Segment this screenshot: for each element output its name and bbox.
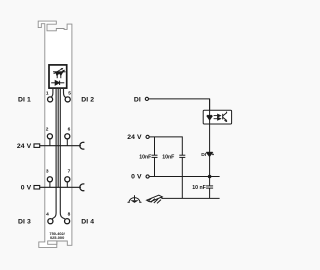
svg-text:DI 3: DI 3 — [18, 218, 31, 225]
svg-text:DI 2: DI 2 — [81, 96, 94, 103]
stub terminal 7 to 0V wire — [66, 182, 68, 188]
terminal 4 — [48, 219, 53, 224]
wire C1 branch upper — [154, 137, 156, 155]
node DI input terminal — [145, 97, 148, 100]
wire junction to C3 — [209, 177, 211, 186]
wire from U1 to terminal 8 — [60, 88, 65, 219]
wire DI horizontal with corner — [149, 99, 210, 110]
terminal 8 — [65, 219, 70, 224]
wire 24V rail with corner — [149, 137, 182, 155]
terminal 5 — [65, 97, 70, 102]
module 750-402 housing outline — [38, 21, 72, 247]
svg-text:0 V: 0 V — [131, 174, 142, 181]
wire C3 to ground rail — [209, 188, 211, 198]
svg-text:10nF: 10nF — [139, 154, 151, 160]
svg-text:10nF: 10nF — [162, 154, 174, 160]
node 24V terminal — [146, 135, 149, 138]
svg-text:DI 1: DI 1 — [18, 96, 31, 103]
svg-text:0 V: 0 V — [21, 185, 32, 192]
0V supply plug — [34, 186, 40, 190]
svg-text:3: 3 — [46, 168, 49, 174]
optocoupler U2 box — [203, 110, 231, 124]
svg-text:2: 2 — [46, 127, 49, 133]
wire through U2 — [209, 110, 211, 124]
functional earth symbol — [128, 195, 142, 203]
wire from U1 to terminal 4 — [52, 88, 56, 219]
diode D2 in LED box — [51, 81, 64, 85]
capacitor C2 — [179, 155, 185, 157]
diode D1 on DI wire — [206, 152, 214, 156]
svg-text:025-000: 025-000 — [50, 235, 64, 240]
ground rail wire — [162, 197, 220, 199]
svg-text:1: 1 — [46, 91, 49, 97]
wire C1 branch lower — [154, 157, 156, 176]
24V supply plug — [34, 144, 40, 148]
stub terminal 3 to 0V wire — [49, 182, 51, 188]
svg-text:DI: DI — [201, 152, 207, 158]
LED indicator box U1 — [49, 65, 67, 88]
wire DI vertical to 0V junction — [209, 99, 211, 177]
svg-text:5: 5 — [68, 91, 71, 97]
node 0V terminal — [146, 175, 149, 178]
svg-text:10 nF: 10 nF — [192, 185, 206, 191]
capacitor C1 — [152, 155, 158, 157]
svg-text:4: 4 — [46, 212, 49, 218]
svg-text:24 V: 24 V — [17, 143, 32, 150]
terminal 2 — [47, 134, 52, 139]
terminal 3 — [47, 177, 52, 182]
stub terminal 6 to 24V wire — [66, 139, 68, 146]
wire from U1 to terminal 1 — [51, 88, 53, 97]
wire 0V rail — [149, 176, 219, 178]
svg-text:8: 8 — [68, 212, 71, 218]
chassis ground symbol — [147, 195, 163, 203]
svg-text:DI: DI — [134, 96, 141, 103]
terminal 6 — [65, 134, 70, 139]
terminal 1 — [48, 97, 53, 102]
wire from U1 to terminal 5 — [64, 88, 67, 98]
wire from U1 to 0V rail — [57, 88, 59, 187]
svg-text:7: 7 — [68, 168, 71, 174]
24V clamp contact — [80, 142, 85, 149]
24V field supply wire — [40, 145, 81, 147]
capacitor C3 — [206, 186, 213, 188]
svg-text:DI 4: DI 4 — [81, 218, 94, 225]
terminal 7 — [65, 177, 70, 182]
0V clamp contact — [80, 184, 85, 191]
optocoupler phototransistor Q1 — [223, 112, 227, 122]
svg-text:6: 6 — [68, 127, 71, 133]
wire C2 branch lower to ground rail — [181, 157, 183, 198]
svg-text:24 V: 24 V — [127, 134, 142, 141]
status LED pair with light arrows — [53, 68, 66, 78]
0V field supply wire — [40, 186, 81, 188]
stub terminal 2 to 24V wire — [49, 139, 51, 146]
module bottom foot detail — [48, 241, 57, 244]
junction node on 0V rail — [208, 175, 212, 179]
optocoupler light arrows — [214, 114, 221, 120]
optocoupler LED — [207, 115, 212, 120]
